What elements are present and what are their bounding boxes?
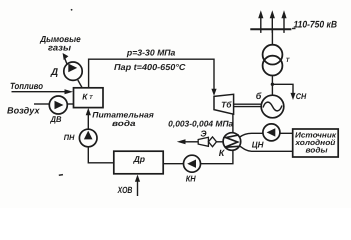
svg-text:Т: Т (286, 57, 291, 64)
svg-text:Пар t=400-650°С: Пар t=400-650°С (114, 62, 186, 72)
svg-text:Др: Др (133, 154, 145, 164)
svg-text:К: К (82, 92, 88, 102)
svg-text:ПН: ПН (64, 133, 75, 142)
svg-text:0,003-0,004 МПа: 0,003-0,004 МПа (168, 118, 233, 128)
svg-text:р=3-30 МПа: р=3-30 МПа (126, 48, 176, 58)
svg-text:Тб: Тб (221, 99, 232, 109)
svg-text:ХОВ: ХОВ (117, 185, 133, 195)
svg-text:ДВ: ДВ (50, 114, 62, 124)
svg-text:110-750 кВ: 110-750 кВ (294, 20, 338, 31)
svg-text:газы: газы (48, 43, 72, 53)
svg-text:КН: КН (186, 174, 197, 184)
svg-text:вода: вода (112, 119, 136, 128)
svg-text:СН: СН (296, 92, 307, 101)
svg-text:ЦН: ЦН (252, 139, 265, 149)
svg-text:б: б (256, 91, 262, 101)
svg-text:Э: Э (200, 129, 207, 139)
svg-text:Воздух: Воздух (7, 106, 41, 116)
svg-text:Топливо: Топливо (10, 81, 43, 91)
svg-text:К: К (219, 148, 226, 158)
svg-text:воды: воды (306, 145, 328, 154)
svg-text:Д: Д (50, 67, 58, 78)
